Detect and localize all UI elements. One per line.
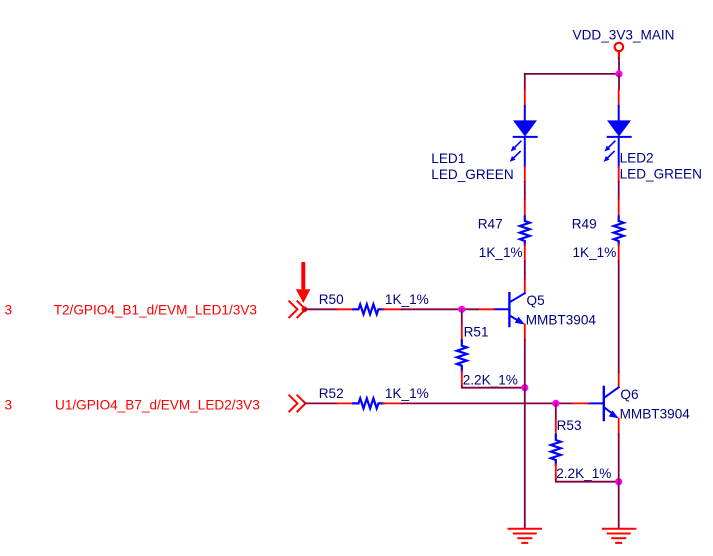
svg-text:R47: R47 — [478, 217, 503, 232]
wire R47 to Q5 collector — [524, 261, 526, 279]
svg-text:1K_1%: 1K_1% — [385, 386, 429, 401]
LED D1 symbol — [514, 106, 537, 167]
LED1 cathode pin — [524, 167, 526, 182]
svg-text:1K_1%: 1K_1% — [573, 245, 617, 260]
svg-text:LED1: LED1 — [431, 151, 465, 166]
wire VDD junction down to LED2 — [618, 74, 620, 90]
svg-text:2.2K_1%: 2.2K_1% — [556, 466, 611, 481]
LED D2 symbol — [608, 106, 631, 167]
LED1 anode pin — [524, 90, 526, 107]
resistor R51 — [457, 325, 467, 386]
svg-text:1K_1%: 1K_1% — [385, 292, 429, 307]
wire Q5 emitter down — [524, 340, 526, 388]
wire LED1 to R47 — [524, 182, 526, 200]
wire Q6 emitter to ground — [618, 434, 620, 482]
resistor R52 — [337, 398, 402, 408]
wire junction to R53 — [555, 403, 557, 419]
wire emitter node to ground — [524, 388, 526, 529]
junction Q5 emitter node — [521, 384, 528, 391]
svg-text:VDD_3V3_MAIN: VDD_3V3_MAIN — [573, 28, 675, 43]
wire top horizontal to LED1 branch — [525, 73, 619, 75]
svg-text:R52: R52 — [319, 386, 344, 401]
resistor R47 — [520, 200, 530, 262]
svg-text:LED_GREEN: LED_GREEN — [431, 167, 513, 182]
port connector T2/GPIO4_B1_d/EVM_LED1/3V3 — [289, 301, 305, 317]
ground GND2 — [603, 529, 636, 543]
svg-text:3: 3 — [5, 397, 13, 412]
svg-text:U1/GPIO4_B7_d/EVM_LED2/3V3: U1/GPIO4_B7_d/EVM_LED2/3V3 — [55, 397, 260, 412]
junction Q6 emitter node — [615, 478, 622, 485]
svg-text:Q5: Q5 — [527, 293, 545, 308]
LED2 light arrow 2 — [604, 152, 614, 162]
LED2 anode pin — [618, 90, 620, 107]
resistor R53 — [551, 420, 561, 480]
wire R49 to Q6 collector — [618, 261, 620, 372]
LED2 cathode pin — [618, 167, 620, 182]
wire LED1 branch vertical — [524, 74, 526, 90]
LED2 light arrow 1 — [605, 141, 615, 151]
svg-text:MMBT3904: MMBT3904 — [526, 312, 597, 327]
svg-text:R49: R49 — [572, 217, 597, 232]
LED1 light arrow 2 — [510, 152, 520, 162]
junction R53 top node — [552, 400, 559, 407]
power symbol VDD_3V3_MAIN — [615, 43, 623, 58]
svg-text:R53: R53 — [557, 418, 582, 433]
resistor R49 — [614, 200, 624, 262]
svg-text:T2/GPIO4_B1_d/EVM_LED1/3V3: T2/GPIO4_B1_d/EVM_LED1/3V3 — [54, 303, 257, 318]
wire power stub to junction — [618, 59, 620, 74]
LED1 light arrow 1 — [511, 141, 521, 151]
svg-text:MMBT3904: MMBT3904 — [620, 407, 691, 422]
svg-text:3: 3 — [5, 303, 13, 318]
svg-text:Q6: Q6 — [620, 387, 638, 402]
wire port2 to R52 — [306, 402, 337, 404]
junction VDD node — [615, 70, 622, 77]
marker red arrow — [296, 262, 311, 303]
svg-text:R50: R50 — [319, 292, 344, 307]
svg-text:LED_GREEN: LED_GREEN — [620, 166, 702, 181]
svg-text:LED2: LED2 — [620, 151, 654, 166]
transistor Q6 — [573, 373, 619, 434]
port connector U1/GPIO4_B7_d/EVM_LED2/3V3 — [289, 395, 305, 411]
svg-text:1K_1%: 1K_1% — [479, 245, 523, 260]
wire LED2 to R49 — [618, 182, 620, 200]
junction R51 top node — [458, 306, 465, 313]
wire port1 to R50 — [306, 308, 337, 310]
transistor Q5 — [478, 279, 525, 339]
wire junction to R51 — [461, 309, 463, 325]
svg-text:2.2K_1%: 2.2K_1% — [463, 373, 518, 388]
wire R50 to Q5 base — [402, 308, 478, 310]
resistor R50 — [337, 304, 402, 314]
wire R53 bottom to emitter node — [556, 479, 619, 482]
wire R51 bottom to emitter node — [462, 386, 525, 388]
svg-text:R51: R51 — [464, 324, 489, 339]
wire R52 to Q6 base — [402, 402, 573, 404]
ground GND1 — [509, 529, 542, 543]
